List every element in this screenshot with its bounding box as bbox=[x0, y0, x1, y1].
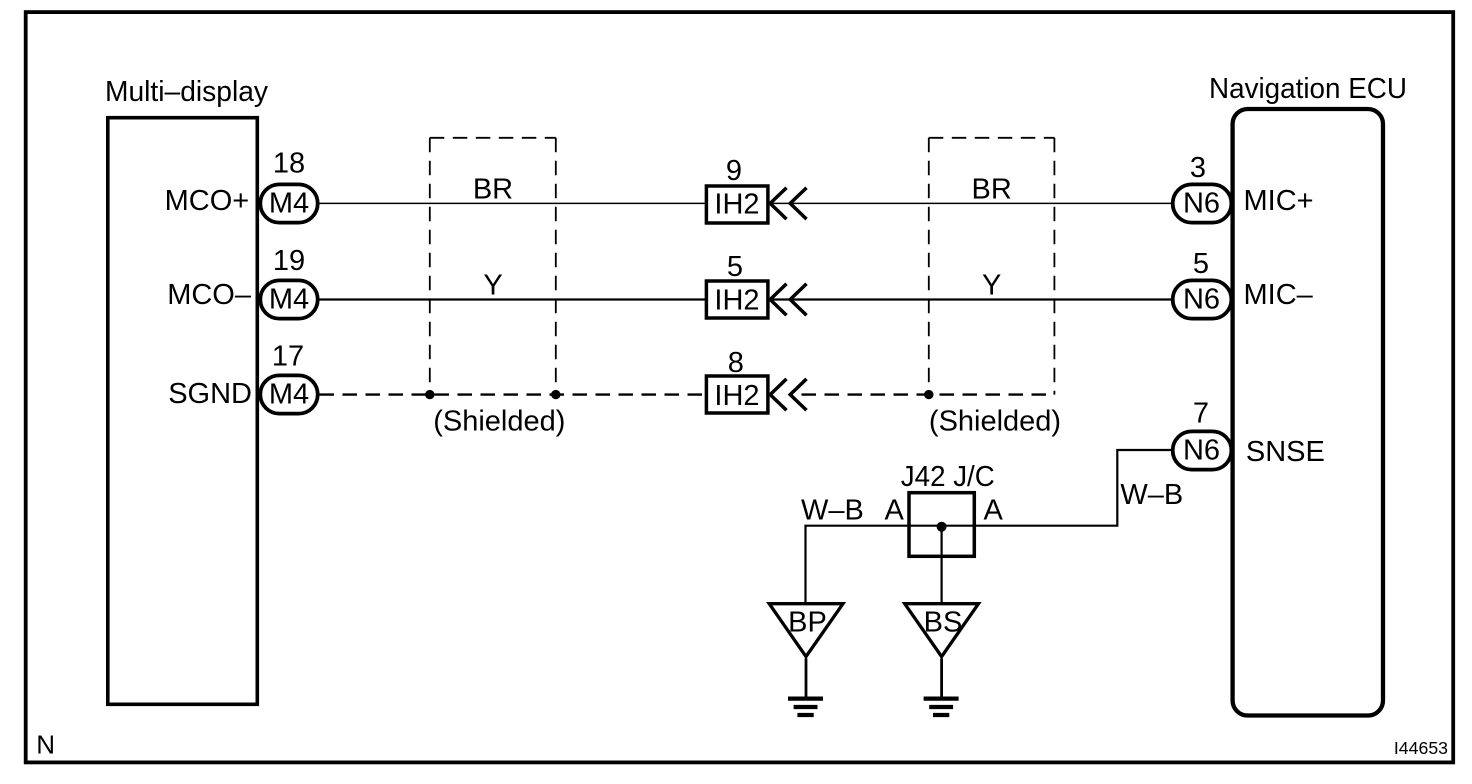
junction box J42 J/C bbox=[909, 493, 974, 557]
svg-text:IH2: IH2 bbox=[714, 285, 759, 317]
ground symbol BS bbox=[924, 699, 959, 715]
svg-text:9: 9 bbox=[726, 155, 742, 187]
svg-text:IH2: IH2 bbox=[714, 380, 759, 412]
chevron arrows IH2 pin 9 bbox=[770, 188, 806, 219]
connector M4 pin 18 bbox=[260, 184, 317, 222]
wire SGND shield drain (dashed) left bbox=[320, 393, 706, 395]
svg-text:SGND: SGND bbox=[168, 378, 252, 410]
svg-text:A: A bbox=[885, 495, 905, 527]
wire W-B from BP to J42 junction bbox=[806, 450, 1172, 602]
svg-text:(Shielded): (Shielded) bbox=[433, 406, 565, 438]
svg-text:19: 19 bbox=[273, 245, 305, 277]
svg-text:5: 5 bbox=[1193, 248, 1209, 280]
svg-text:W–B: W–B bbox=[801, 495, 864, 527]
chevron arrows IH2 pin 5 bbox=[770, 284, 806, 315]
connector N6 pin 3 bbox=[1173, 184, 1232, 222]
connector N6 pin 7 bbox=[1173, 431, 1232, 469]
shield dashed box left bbox=[430, 138, 556, 395]
svg-text:M4: M4 bbox=[269, 283, 309, 315]
wire IH2 pin 5 to MIC- (Y) bbox=[771, 298, 1172, 300]
svg-text:BR: BR bbox=[473, 174, 513, 206]
svg-text:A: A bbox=[984, 495, 1004, 527]
svg-text:BR: BR bbox=[972, 174, 1012, 206]
svg-text:M4: M4 bbox=[269, 187, 309, 219]
ground triangle BS bbox=[905, 604, 979, 657]
shield dashed box right bbox=[929, 138, 1055, 395]
svg-text:BP: BP bbox=[788, 607, 827, 639]
junction connector IH2 pin 8 bbox=[706, 376, 768, 413]
svg-text:17: 17 bbox=[272, 341, 304, 373]
svg-text:SNSE: SNSE bbox=[1246, 436, 1325, 468]
svg-text:18: 18 bbox=[273, 148, 305, 180]
connector N6 pin 5 bbox=[1173, 280, 1232, 318]
svg-text:8: 8 bbox=[728, 347, 744, 379]
wire IH2 pin 9 to MIC+ (BR) bbox=[771, 202, 1172, 204]
junction dot left shield box right bbox=[551, 390, 560, 399]
wire SGND shield drain (dashed) right bbox=[802, 393, 1055, 395]
svg-text:Navigation ECU: Navigation ECU bbox=[1209, 73, 1407, 105]
svg-text:MCO–: MCO– bbox=[167, 279, 252, 311]
wire MCO+ to IH2 pin 9 (BR) bbox=[320, 202, 706, 204]
svg-text:7: 7 bbox=[1193, 397, 1209, 429]
svg-text:IH2: IH2 bbox=[714, 189, 759, 221]
wire BP to ground bbox=[805, 659, 808, 698]
Navigation ECU component box bbox=[1233, 109, 1383, 716]
svg-text:W–B: W–B bbox=[1120, 479, 1183, 511]
wire J42 to BS bbox=[940, 527, 942, 602]
svg-text:Y: Y bbox=[982, 270, 1001, 302]
svg-text:N6: N6 bbox=[1183, 434, 1220, 466]
wire MCO- to IH2 pin 5 (Y) bbox=[320, 298, 706, 300]
svg-text:MCO+: MCO+ bbox=[165, 185, 250, 217]
svg-text:3: 3 bbox=[1190, 152, 1206, 184]
junction dot left shield box left bbox=[425, 390, 434, 399]
ground symbol BP bbox=[788, 699, 823, 715]
svg-text:N6: N6 bbox=[1183, 187, 1220, 219]
chevron arrows IH2 pin 8 bbox=[770, 379, 806, 410]
connector M4 pin 17 bbox=[260, 375, 317, 413]
Multi-display component box bbox=[108, 118, 257, 705]
svg-text:Multi–display: Multi–display bbox=[105, 76, 268, 108]
svg-text:MIC–: MIC– bbox=[1244, 279, 1314, 311]
svg-text:Y: Y bbox=[483, 270, 502, 302]
junction dot right shield box left bbox=[924, 390, 933, 399]
ground triangle BP bbox=[769, 604, 843, 657]
svg-text:J42 J/C: J42 J/C bbox=[901, 461, 995, 493]
junction dot J42 bbox=[937, 522, 947, 532]
svg-text:M4: M4 bbox=[269, 378, 309, 410]
svg-text:I44653: I44653 bbox=[1394, 738, 1448, 758]
svg-text:MIC+: MIC+ bbox=[1244, 185, 1314, 217]
svg-text:5: 5 bbox=[727, 251, 743, 283]
svg-text:N: N bbox=[36, 729, 55, 759]
junction connector IH2 pin 5 bbox=[706, 281, 768, 318]
svg-text:BS: BS bbox=[924, 607, 963, 639]
junction connector IH2 pin 9 bbox=[706, 186, 768, 223]
connector M4 pin 19 bbox=[260, 280, 317, 318]
wire BS to ground bbox=[940, 659, 943, 698]
svg-text:(Shielded): (Shielded) bbox=[929, 406, 1061, 438]
svg-text:N6: N6 bbox=[1183, 283, 1220, 315]
